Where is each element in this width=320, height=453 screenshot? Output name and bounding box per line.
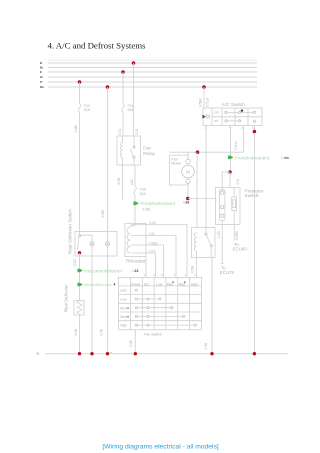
svg-text:4: 4 <box>114 283 116 287</box>
svg-text:2.0Y: 2.0Y <box>149 249 156 253</box>
indicator lamp L1 <box>90 242 94 246</box>
svg-text:B): B) <box>37 352 40 356</box>
wire F10 to defroster switch <box>79 112 81 231</box>
fuse F36 <box>134 186 147 196</box>
svg-text:High: High <box>120 324 127 328</box>
wire bus1 to fan relay switch <box>133 63 135 136</box>
connector arrow Instrument/Interior A22 <box>77 269 138 274</box>
svg-text:Rheostat: Rheostat <box>126 258 146 264</box>
relay K1 Fan Relay <box>117 136 156 165</box>
svg-text:0.5BR: 0.5BR <box>235 230 239 240</box>
connector arrow Front/Instrument A26 <box>133 201 189 206</box>
svg-text:0.5Br: 0.5Br <box>190 264 194 273</box>
svg-text:2.0BG: 2.0BG <box>149 241 159 245</box>
wire A/C switch pin4 to A/C relay <box>205 126 207 228</box>
svg-text:26: 26 <box>185 201 189 205</box>
svg-text:2.0B: 2.0B <box>204 343 208 350</box>
svg-text:A/C Switch: A/C Switch <box>222 102 246 108</box>
svg-text:2.0L: 2.0L <box>135 128 139 134</box>
svg-text:E: E <box>40 70 42 74</box>
wire rheostat output to fan switch <box>145 257 147 278</box>
svg-text:0.5LG: 0.5LG <box>206 97 210 106</box>
svg-text:Front/Instrument: Front/Instrument <box>141 201 176 206</box>
wire fan relay coil to front/instrument <box>122 165 124 200</box>
wire fan relay switch to fuse F36 <box>134 165 136 186</box>
svg-text:Instrument/Interior: Instrument/Interior <box>84 269 122 274</box>
svg-text:High: High <box>191 282 198 286</box>
wire lamp L2 to ground bus <box>107 246 109 354</box>
svg-text:20A: 20A <box>140 192 147 196</box>
node defroster switch output <box>78 251 81 254</box>
node motor feed junction <box>196 150 200 154</box>
node ground junction 3 <box>106 352 109 355</box>
svg-text:2.0B: 2.0B <box>129 340 133 347</box>
bus line 0 faint <box>48 59 257 61</box>
node junction on bus 1 <box>132 61 136 65</box>
fuse F16 <box>122 104 134 113</box>
svg-text:Power: Power <box>131 282 141 286</box>
wire A/C relay switch to ground bus <box>211 258 213 354</box>
svg-text:0.5L: 0.5L <box>118 128 122 134</box>
svg-text:Low: Low <box>120 298 127 302</box>
bus line 4 <box>48 76 257 78</box>
node junction on bus 6 right <box>202 85 206 89</box>
node pressure switch feed junction <box>228 170 232 174</box>
wire rheostat tap 2.0L <box>131 232 176 278</box>
wire bus3 to fuse F16 <box>122 72 124 104</box>
bus line 5 <box>48 81 257 83</box>
wire bus5 to fuse F10 <box>79 82 81 104</box>
node ground junction 6 <box>253 352 256 355</box>
svg-text:Med: Med <box>120 306 127 310</box>
svg-text:ECU60: ECU60 <box>233 247 248 252</box>
svg-text:10A: 10A <box>127 108 134 112</box>
svg-text:0.5B: 0.5B <box>74 329 78 336</box>
pressure switch assembly <box>216 188 264 225</box>
svg-text:OFF: OFF <box>214 111 220 115</box>
bus line 3 <box>48 71 257 73</box>
svg-text:0.5L: 0.5L <box>236 178 240 184</box>
svg-text:Low: Low <box>156 282 163 286</box>
fan motor M1 <box>170 152 195 198</box>
svg-text:Rear Defroster: Rear Defroster <box>64 284 69 312</box>
relay K2 A/C relay <box>192 228 216 258</box>
node ground junction 2 <box>90 352 93 355</box>
node junction on bus 3 <box>121 70 125 74</box>
svg-text:Switch: Switch <box>244 193 258 199</box>
svg-text:/m: /m <box>284 156 289 160</box>
svg-text:22: 22 <box>134 269 138 273</box>
svg-text:F36: F36 <box>140 187 146 191</box>
switch S1 A/C Switch <box>202 102 262 130</box>
bus line 2 <box>48 67 257 69</box>
svg-text:Motor: Motor <box>171 161 181 165</box>
wire A/C switch pin5 down <box>230 126 232 171</box>
wire junction into pressure switch assembly <box>222 172 230 190</box>
svg-text:0.5B: 0.5B <box>99 329 103 336</box>
svg-text:Med: Med <box>179 282 186 286</box>
wire bus6 to A/C switch <box>203 87 205 108</box>
indicator lamp L2 <box>105 242 109 246</box>
wire rheostat tap 2.0BG <box>131 241 164 277</box>
svg-text:[Wiring diagrams electrical -: [Wiring diagrams electrical - all models… <box>102 444 218 451</box>
svg-text:0.5B: 0.5B <box>117 178 121 185</box>
node junction on bus 5 <box>78 80 82 84</box>
wire lamp L1 to ground bus <box>91 246 93 354</box>
svg-text:0.5Br: 0.5Br <box>101 209 105 218</box>
connector arrow Front/Instrument A/m <box>228 155 289 160</box>
connector arrow Interior/Back door <box>77 283 115 287</box>
svg-text:2.0Br: 2.0Br <box>74 124 78 133</box>
svg-text:2.0Br: 2.0Br <box>143 207 152 211</box>
svg-text:20A: 20A <box>84 108 91 112</box>
wire pressure switch to ECU75 <box>217 220 235 275</box>
node ground junction 1 <box>78 352 81 355</box>
svg-text:ON: ON <box>214 119 218 123</box>
bus line 6 <box>48 86 257 88</box>
wire motor top to pin2 of A/C switch <box>170 151 244 153</box>
node ground junction 4 <box>134 352 137 355</box>
svg-text:A/C: A/C <box>144 282 150 286</box>
svg-text:2.0L: 2.0L <box>130 179 134 185</box>
node pin8 junction <box>253 130 257 134</box>
wire pressure switch to ECU60 <box>233 210 248 251</box>
svg-text:2.0L: 2.0L <box>149 232 155 236</box>
node ground junction 5 <box>210 352 213 355</box>
rear defroster grid <box>64 284 85 315</box>
node motor ground junction <box>186 197 190 201</box>
ground bus <box>37 352 289 356</box>
svg-text:Fan: Fan <box>143 146 151 151</box>
wire rear defroster grid to ground bus <box>79 315 81 354</box>
wire bus6 to illumination lamp <box>107 87 109 242</box>
wire defroster switch to rear defroster grid <box>79 253 81 301</box>
svg-text:Db: Db <box>40 85 44 89</box>
svg-text:0.5LG: 0.5LG <box>234 141 238 150</box>
svg-text:Front/Instrument: Front/Instrument <box>235 155 270 160</box>
wire A/C switch pin2 to motor feed <box>243 126 245 153</box>
wire F16 to fan relay coil <box>122 112 124 136</box>
wire junction to A/C relay coil <box>196 152 198 227</box>
svg-text:M: M <box>186 170 190 175</box>
svg-text:Med: Med <box>120 315 127 319</box>
svg-text:1.25L: 1.25L <box>217 230 221 238</box>
switch S2 Rear Defroster Switch <box>68 209 118 256</box>
wire fan switch to ground bus <box>134 330 136 354</box>
svg-text:Interior/Back door: Interior/Back door <box>84 283 112 287</box>
svg-text:4. A/C and Defrost Systems: 4. A/C and Defrost Systems <box>48 41 147 51</box>
wire rheostat tap 2.0G <box>131 221 187 278</box>
node junction on bus 6 left <box>106 85 110 89</box>
wire F36 to resistor block <box>134 195 136 224</box>
svg-text:B: B <box>40 61 42 65</box>
svg-text:Rear Defroster Switch: Rear Defroster Switch <box>68 209 73 254</box>
svg-text:Relay: Relay <box>143 151 155 156</box>
svg-text:2.0G: 2.0G <box>149 221 156 225</box>
bus line 1 <box>48 62 257 64</box>
svg-text:0.5BR: 0.5BR <box>199 97 203 107</box>
svg-text:Med: Med <box>167 282 174 286</box>
svg-text:0.5G: 0.5G <box>73 259 77 266</box>
svg-text:OFF: OFF <box>120 289 127 293</box>
wire A/C switch pin8 to ground bus <box>253 126 255 354</box>
resistor block R1 Rheostat <box>125 224 146 265</box>
svg-text:ECU75: ECU75 <box>220 270 235 275</box>
wire A/C relay coil to fan switch <box>195 258 197 278</box>
wire motor ground to pressure switch box <box>188 198 216 200</box>
wire rheostat tap 2.0Y <box>131 249 156 277</box>
fuse F10 <box>78 104 90 113</box>
svg-text:Fan Switch: Fan Switch <box>144 332 162 336</box>
svg-text:1w: 1w <box>110 352 113 354</box>
switch S3 Fan Switch <box>119 278 202 337</box>
